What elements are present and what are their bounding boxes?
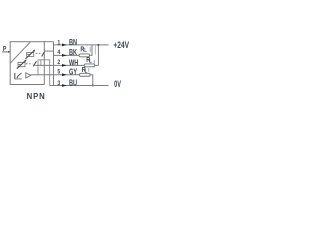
pin number 1 <box>57 40 60 47</box>
potentiometer B <box>18 62 25 66</box>
svg-text:NPN: NPN <box>27 92 46 101</box>
receiver photodiode D1 <box>14 73 16 79</box>
sensor box U1 <box>10 42 44 85</box>
resistor RL2 <box>84 64 95 67</box>
wire 2 WH <box>33 64 84 66</box>
wire 1 BN <box>54 44 109 46</box>
P input arrow <box>2 51 8 53</box>
wire 4 BK <box>54 54 80 56</box>
svg-text:BK: BK <box>69 49 77 57</box>
pin number 5 <box>57 69 60 76</box>
amplifier A1 <box>26 73 31 78</box>
faint mark near RL1 <box>89 47 91 52</box>
wire 5 GY <box>31 74 80 76</box>
pin number 4 <box>57 50 60 57</box>
switch lever B <box>33 61 36 66</box>
arrowhead pin 3 <box>62 84 67 87</box>
wire RL2 to +24V rail <box>95 64 99 66</box>
wire 4 BK exit step <box>44 50 53 52</box>
faint mark near RL2 <box>93 60 95 65</box>
resistor RL3 <box>80 73 91 76</box>
background <box>0 0 135 135</box>
box top edge extension to bus <box>44 41 53 43</box>
resistor RL1 <box>79 54 90 57</box>
arrowhead pin 1 <box>62 44 67 47</box>
svg-text:L: L <box>84 48 87 55</box>
potentiometer B arrow <box>17 61 25 69</box>
label BN <box>69 39 77 47</box>
junction node on wire 3 <box>92 85 94 87</box>
received light arrow <box>18 73 22 77</box>
internal riser from amplifier <box>37 60 39 75</box>
arrowhead pin 5 <box>62 73 67 76</box>
junction node on wire 1 <box>97 44 99 46</box>
label RL1 <box>80 46 84 54</box>
svg-text:WH: WH <box>69 60 78 68</box>
potentiometer A arrow <box>25 51 33 59</box>
faint mark right of RL1 wire <box>94 46 96 55</box>
optical face diagonal <box>10 42 30 64</box>
label WH <box>69 60 78 68</box>
label BU <box>69 80 77 88</box>
internal riser to wire 2 <box>40 60 42 66</box>
svg-text:BU: BU <box>69 80 77 88</box>
faint mark near RL3 <box>88 68 90 72</box>
wire 3 BU <box>50 85 109 87</box>
label RL2 <box>86 56 90 64</box>
svg-text:GY: GY <box>69 69 77 77</box>
svg-text:L: L <box>89 58 92 65</box>
wire RL3 to 0V <box>90 75 93 86</box>
terminal +24V <box>113 40 129 50</box>
linkage dashes A <box>36 52 42 54</box>
potentiometer A <box>27 52 34 56</box>
arrowhead pin 2 <box>62 64 67 67</box>
+24V rail drop <box>97 45 99 66</box>
svg-text:+24V: +24V <box>113 40 129 50</box>
svg-text:BN: BN <box>69 39 77 47</box>
label GY <box>69 69 77 77</box>
label BK <box>69 49 77 57</box>
svg-text:L: L <box>85 68 88 75</box>
arrowhead pin 4 <box>62 54 67 57</box>
wire RL1 to +24V rail <box>90 45 92 56</box>
svg-text:0V: 0V <box>114 79 121 90</box>
switch lever A <box>42 52 45 57</box>
pin number 2 <box>57 59 60 66</box>
label NPN <box>27 92 46 101</box>
linkage dashes B <box>26 63 33 65</box>
internal link and 0V feed drop <box>38 60 50 86</box>
vertical distribution bus <box>53 42 55 86</box>
label P <box>3 45 7 53</box>
terminal 0V <box>114 79 121 90</box>
pin number 3 <box>57 81 60 88</box>
label RL3 <box>82 66 86 74</box>
